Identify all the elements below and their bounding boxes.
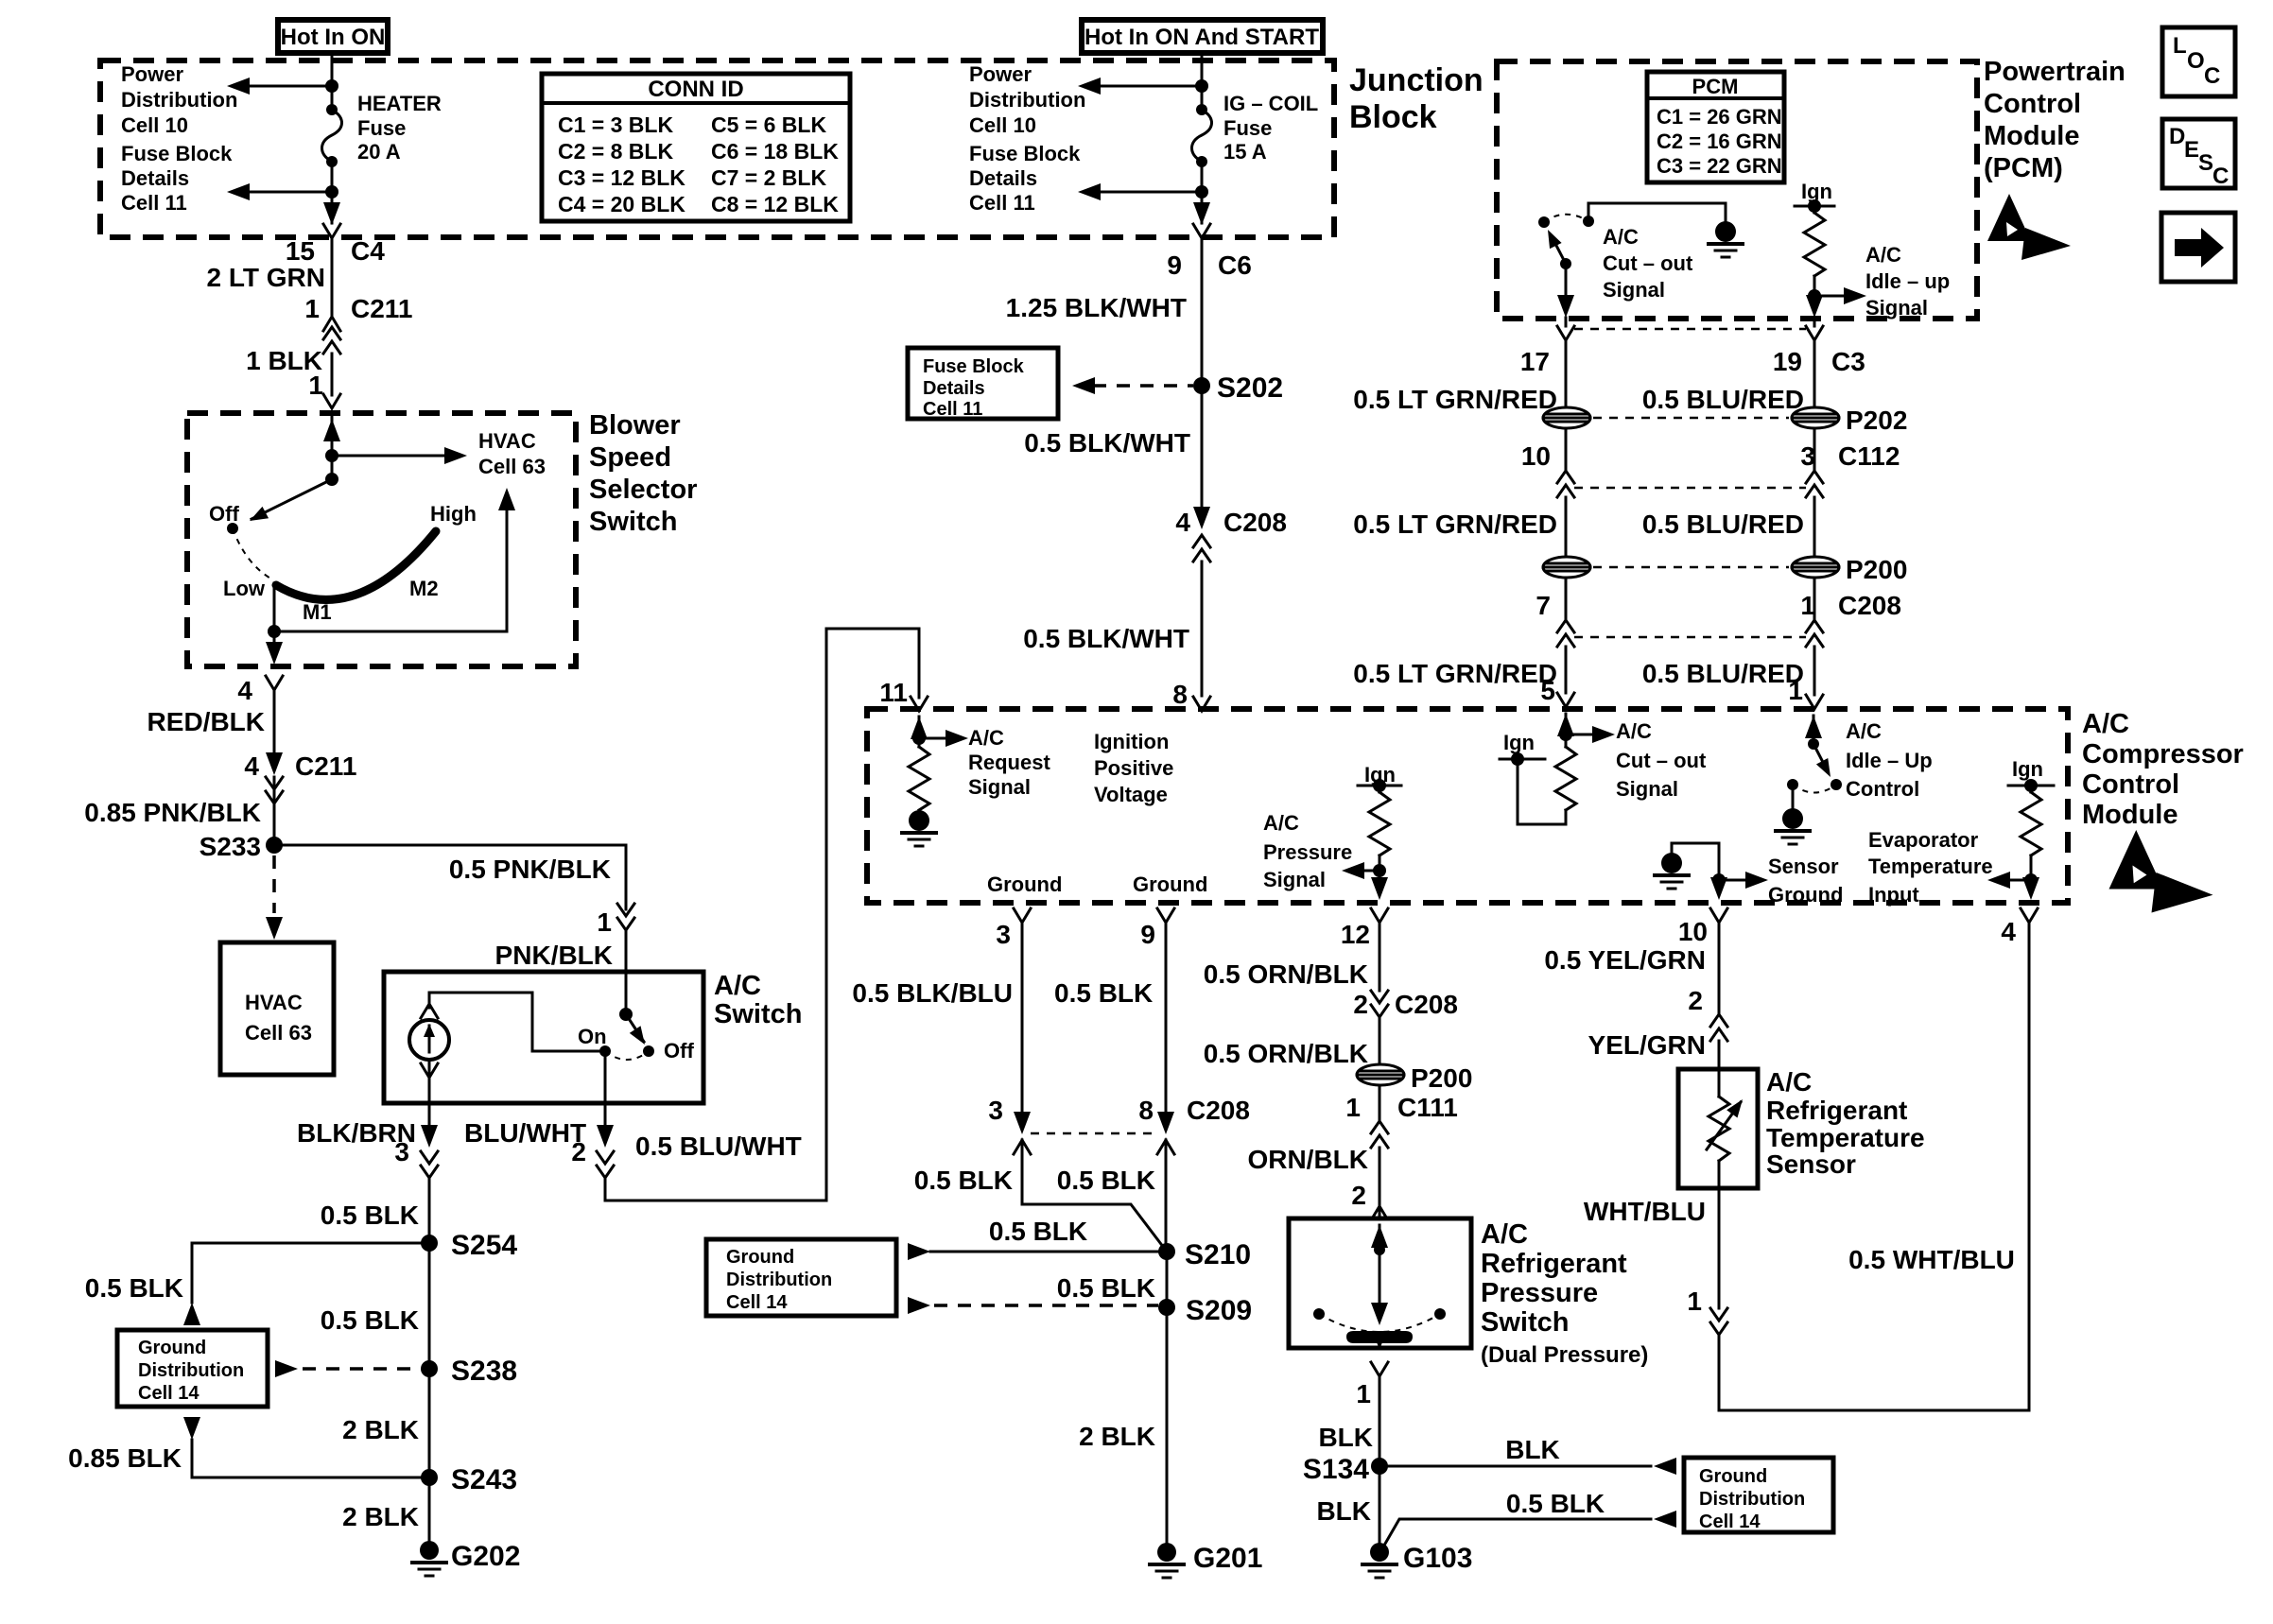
svg-text:HEATER: HEATER: [357, 92, 442, 115]
svg-text:Cell 11: Cell 11: [969, 191, 1035, 215]
svg-text:Ign: Ign: [1801, 180, 1832, 203]
svg-text:C4 = 20 BLK: C4 = 20 BLK: [558, 192, 685, 216]
svg-text:Module: Module: [1984, 121, 2080, 151]
svg-text:0.85 BLK: 0.85 BLK: [68, 1443, 182, 1473]
svg-text:BLU/WHT: BLU/WHT: [464, 1118, 586, 1148]
svg-text:G202: G202: [451, 1541, 520, 1572]
svg-text:C: C: [2212, 164, 2229, 189]
svg-text:Cell 63: Cell 63: [245, 1021, 312, 1045]
svg-text:Switch: Switch: [714, 999, 802, 1029]
svg-text:S209: S209: [1186, 1295, 1252, 1326]
svg-text:Junction: Junction: [1349, 62, 1484, 98]
svg-text:15: 15: [286, 236, 315, 266]
svg-text:1: 1: [304, 294, 320, 323]
svg-text:Switch: Switch: [1481, 1307, 1569, 1338]
svg-text:1: 1: [308, 371, 323, 400]
svg-text:Signal: Signal: [1865, 296, 1928, 320]
svg-text:M1: M1: [303, 600, 332, 624]
svg-text:0.5 BLK: 0.5 BLK: [1057, 1273, 1155, 1303]
svg-text:2 LT GRN: 2 LT GRN: [207, 263, 325, 292]
svg-text:10: 10: [1521, 441, 1551, 471]
svg-text:E: E: [2184, 137, 2199, 163]
svg-text:C1 = 26 GRN: C1 = 26 GRN: [1657, 105, 1782, 129]
svg-text:Cell 11: Cell 11: [923, 399, 982, 420]
svg-text:0.5 YEL/GRN: 0.5 YEL/GRN: [1544, 945, 1706, 975]
svg-text:S210: S210: [1185, 1239, 1251, 1270]
svg-text:Ground: Ground: [1699, 1466, 1767, 1487]
svg-text:L: L: [2173, 33, 2187, 59]
svg-text:IG – COIL: IG – COIL: [1223, 92, 1318, 115]
svg-text:S: S: [2198, 150, 2213, 176]
svg-text:Distribution: Distribution: [121, 88, 237, 112]
svg-text:P200: P200: [1411, 1063, 1472, 1093]
svg-text:Cell 11: Cell 11: [121, 191, 187, 215]
svg-text:Control: Control: [1984, 89, 2081, 119]
svg-text:0.5 BLK: 0.5 BLK: [914, 1166, 1013, 1195]
svg-text:C211: C211: [295, 752, 356, 781]
svg-text:2: 2: [571, 1137, 586, 1166]
svg-text:ORN/BLK: ORN/BLK: [1247, 1145, 1368, 1174]
svg-text:S254: S254: [451, 1230, 517, 1261]
svg-text:C3 = 12 BLK: C3 = 12 BLK: [558, 165, 685, 190]
svg-text:Compressor: Compressor: [2082, 739, 2244, 769]
svg-text:Voltage: Voltage: [1094, 783, 1168, 806]
svg-text:S238: S238: [451, 1356, 517, 1387]
svg-text:Cell 14: Cell 14: [726, 1292, 788, 1313]
svg-text:Ground: Ground: [138, 1338, 206, 1358]
svg-text:0.5 BLK: 0.5 BLK: [85, 1273, 183, 1303]
svg-text:A/C: A/C: [1616, 719, 1652, 743]
svg-text:CONN ID: CONN ID: [648, 77, 743, 102]
svg-text:4: 4: [244, 752, 259, 781]
svg-text:4: 4: [2001, 917, 2016, 946]
svg-text:BLK: BLK: [1316, 1496, 1371, 1526]
svg-text:G103: G103: [1403, 1543, 1472, 1574]
svg-text:0.5 BLK: 0.5 BLK: [1057, 1166, 1155, 1195]
svg-text:Ign: Ign: [1503, 731, 1535, 754]
svg-text:C2 = 16 GRN: C2 = 16 GRN: [1657, 130, 1782, 153]
svg-text:C6: C6: [1218, 251, 1252, 280]
svg-text:Signal: Signal: [1263, 868, 1326, 891]
svg-text:Evaporator: Evaporator: [1868, 828, 1979, 852]
svg-text:Control: Control: [2082, 769, 2179, 800]
svg-text:A/C: A/C: [1846, 719, 1882, 743]
svg-text:Fuse Block: Fuse Block: [923, 356, 1025, 377]
svg-text:2: 2: [1688, 986, 1703, 1015]
svg-text:Ground: Ground: [726, 1247, 794, 1268]
svg-text:High: High: [430, 502, 477, 526]
svg-text:20 A: 20 A: [357, 140, 401, 164]
svg-text:Distribution: Distribution: [969, 88, 1085, 112]
svg-text:0.5 BLU/RED: 0.5 BLU/RED: [1642, 659, 1804, 688]
svg-text:0.5 LT GRN/RED: 0.5 LT GRN/RED: [1353, 510, 1557, 539]
svg-text:C208: C208: [1838, 591, 1901, 620]
svg-text:Refrigerant: Refrigerant: [1481, 1249, 1627, 1279]
svg-text:A/C: A/C: [1603, 225, 1639, 249]
svg-text:(Dual Pressure): (Dual Pressure): [1481, 1342, 1648, 1368]
svg-text:Distribution: Distribution: [1699, 1489, 1805, 1510]
svg-text:1: 1: [1788, 676, 1803, 705]
svg-text:Blower: Blower: [589, 410, 681, 441]
svg-text:Low: Low: [223, 577, 266, 600]
svg-text:A/C: A/C: [1481, 1219, 1528, 1250]
svg-text:Sensor: Sensor: [1766, 1149, 1856, 1179]
svg-text:3: 3: [394, 1137, 409, 1166]
svg-text:D: D: [2169, 124, 2185, 149]
svg-text:4: 4: [1175, 508, 1190, 537]
svg-text:C2 = 8 BLK: C2 = 8 BLK: [558, 139, 673, 164]
svg-text:0.5 LT GRN/RED: 0.5 LT GRN/RED: [1353, 385, 1557, 414]
svg-text:Cell 14: Cell 14: [1699, 1512, 1761, 1532]
svg-text:Pressure: Pressure: [1263, 840, 1352, 864]
svg-text:S202: S202: [1217, 372, 1283, 404]
svg-text:11: 11: [879, 678, 908, 707]
svg-text:1: 1: [1345, 1093, 1361, 1122]
svg-text:Power: Power: [121, 62, 183, 86]
svg-text:C: C: [2204, 63, 2220, 89]
svg-text:Request: Request: [968, 751, 1050, 774]
svg-text:3: 3: [1800, 441, 1815, 471]
svg-text:1: 1: [1356, 1379, 1371, 1408]
svg-text:0.5 BLK: 0.5 BLK: [321, 1201, 419, 1230]
svg-text:M2: M2: [409, 577, 439, 600]
svg-text:0.5 BLK: 0.5 BLK: [1506, 1489, 1605, 1518]
svg-text:C7 = 2 BLK: C7 = 2 BLK: [711, 165, 826, 190]
svg-text:C112: C112: [1838, 441, 1900, 471]
svg-text:0.5 BLU/WHT: 0.5 BLU/WHT: [635, 1132, 802, 1161]
svg-text:C5 = 6 BLK: C5 = 6 BLK: [711, 112, 826, 137]
svg-text:Powertrain: Powertrain: [1984, 57, 2126, 87]
svg-text:9: 9: [1167, 251, 1182, 280]
svg-text:Selector: Selector: [589, 475, 697, 505]
svg-text:Temperature: Temperature: [1766, 1123, 1925, 1152]
svg-text:0.5 BLK: 0.5 BLK: [321, 1305, 419, 1335]
svg-text:Positive: Positive: [1094, 756, 1173, 780]
svg-text:19: 19: [1773, 347, 1802, 376]
svg-text:7: 7: [1536, 591, 1551, 620]
svg-text:C4: C4: [351, 236, 385, 266]
svg-text:1: 1: [597, 907, 612, 937]
svg-text:8: 8: [1138, 1096, 1154, 1125]
svg-text:Details: Details: [923, 378, 985, 399]
svg-text:0.85 PNK/BLK: 0.85 PNK/BLK: [84, 798, 261, 827]
svg-text:0.5 PNK/BLK: 0.5 PNK/BLK: [449, 855, 611, 884]
svg-text:HVAC: HVAC: [245, 991, 303, 1014]
svg-text:1.25 BLK/WHT: 1.25 BLK/WHT: [1006, 293, 1187, 322]
svg-text:Idle – Up: Idle – Up: [1846, 749, 1933, 772]
svg-text:0.5 ORN/BLK: 0.5 ORN/BLK: [1204, 1039, 1368, 1068]
svg-text:Control: Control: [1846, 777, 1919, 801]
svg-text:P202: P202: [1846, 406, 1907, 435]
svg-text:O: O: [2187, 48, 2205, 74]
svg-text:Ign: Ign: [2012, 757, 2043, 781]
svg-text:C111: C111: [1397, 1093, 1458, 1122]
svg-text:Cell 10: Cell 10: [969, 113, 1036, 137]
svg-text:A/C: A/C: [2082, 709, 2129, 739]
svg-text:Fuse Block: Fuse Block: [121, 142, 233, 165]
svg-text:0.5 BLK/BLU: 0.5 BLK/BLU: [852, 978, 1013, 1008]
svg-text:Hot In ON And START: Hot In ON And START: [1084, 25, 1319, 50]
svg-text:C211: C211: [351, 294, 412, 323]
svg-text:C6 = 18 BLK: C6 = 18 BLK: [711, 139, 839, 164]
svg-text:15 A: 15 A: [1223, 140, 1267, 164]
svg-text:Speed: Speed: [589, 442, 671, 473]
svg-text:(PCM): (PCM): [1984, 153, 2063, 183]
svg-text:0.5 BLK: 0.5 BLK: [1054, 978, 1153, 1008]
svg-text:5: 5: [1540, 676, 1555, 705]
svg-text:Fuse: Fuse: [357, 116, 406, 140]
svg-text:0.5 BLK/WHT: 0.5 BLK/WHT: [1024, 428, 1190, 458]
svg-text:A/C: A/C: [968, 726, 1004, 750]
svg-text:3: 3: [988, 1096, 1003, 1125]
svg-text:Block: Block: [1349, 99, 1437, 135]
svg-text:Ground: Ground: [1768, 883, 1843, 907]
svg-text:A/C: A/C: [1865, 243, 1901, 267]
svg-text:Signal: Signal: [968, 775, 1031, 799]
svg-text:1: 1: [1800, 591, 1815, 620]
svg-text:Ground: Ground: [987, 872, 1062, 896]
svg-text:17: 17: [1520, 347, 1550, 376]
svg-text:Input: Input: [1868, 883, 1919, 907]
svg-text:C3 = 22 GRN: C3 = 22 GRN: [1657, 154, 1782, 178]
svg-text:Off: Off: [664, 1039, 694, 1063]
svg-text:C208: C208: [1187, 1096, 1250, 1125]
svg-text:0.5 BLU/RED: 0.5 BLU/RED: [1642, 510, 1804, 539]
svg-text:Fuse Block: Fuse Block: [969, 142, 1081, 165]
svg-text:Switch: Switch: [589, 507, 677, 537]
svg-text:Hot In ON: Hot In ON: [281, 25, 386, 50]
svg-text:C3: C3: [1831, 347, 1865, 376]
svg-text:BLK: BLK: [1318, 1423, 1373, 1452]
svg-text:C8 = 12 BLK: C8 = 12 BLK: [711, 192, 839, 216]
svg-text:1: 1: [1687, 1287, 1702, 1316]
svg-text:Cut – out: Cut – out: [1616, 749, 1707, 772]
svg-text:BLK: BLK: [1505, 1435, 1560, 1464]
svg-text:C208: C208: [1223, 508, 1287, 537]
svg-text:Pressure: Pressure: [1481, 1278, 1598, 1308]
svg-text:A/C: A/C: [1263, 811, 1299, 835]
svg-text:0.5 ORN/BLK: 0.5 ORN/BLK: [1204, 959, 1368, 989]
svg-text:Details: Details: [969, 166, 1037, 190]
svg-text:Sensor: Sensor: [1768, 855, 1839, 878]
svg-text:Temperature: Temperature: [1868, 855, 1993, 878]
svg-text:P200: P200: [1846, 555, 1907, 584]
svg-text:2 BLK: 2 BLK: [342, 1415, 419, 1444]
svg-text:RED/BLK: RED/BLK: [147, 707, 265, 736]
svg-text:HVAC: HVAC: [478, 429, 536, 453]
svg-text:WHT/BLU: WHT/BLU: [1584, 1197, 1706, 1226]
svg-text:2 BLK: 2 BLK: [342, 1502, 419, 1531]
svg-text:Cell 63: Cell 63: [478, 455, 546, 478]
svg-text:8: 8: [1172, 680, 1188, 709]
svg-text:PNK/BLK: PNK/BLK: [495, 941, 613, 970]
svg-text:Ignition: Ignition: [1094, 730, 1169, 753]
svg-text:0.5 WHT/BLU: 0.5 WHT/BLU: [1848, 1245, 2015, 1274]
svg-text:Power: Power: [969, 62, 1032, 86]
svg-text:3: 3: [996, 920, 1011, 949]
svg-text:Cut – out: Cut – out: [1603, 251, 1693, 275]
svg-text:0.5 BLU/RED: 0.5 BLU/RED: [1642, 385, 1804, 414]
svg-text:A/C: A/C: [714, 971, 761, 1001]
svg-text:0.5 BLK: 0.5 BLK: [989, 1217, 1087, 1246]
svg-text:Fuse: Fuse: [1223, 116, 1272, 140]
svg-text:S243: S243: [451, 1464, 517, 1495]
svg-text:Module: Module: [2082, 800, 2178, 830]
svg-text:Refrigerant: Refrigerant: [1766, 1096, 1907, 1125]
svg-text:2 BLK: 2 BLK: [1079, 1422, 1155, 1451]
svg-text:On: On: [578, 1025, 607, 1048]
svg-text:A/C: A/C: [1766, 1067, 1812, 1097]
svg-text:Signal: Signal: [1616, 777, 1678, 801]
svg-text:Cell 14: Cell 14: [138, 1383, 200, 1404]
svg-text:Signal: Signal: [1603, 278, 1665, 302]
svg-text:YEL/GRN: YEL/GRN: [1588, 1030, 1706, 1060]
svg-text:S134: S134: [1303, 1454, 1369, 1485]
svg-text:9: 9: [1140, 920, 1155, 949]
svg-text:PCM: PCM: [1692, 75, 1739, 98]
svg-text:S233: S233: [200, 832, 261, 861]
svg-text:2: 2: [1351, 1181, 1366, 1210]
svg-text:Details: Details: [121, 166, 189, 190]
svg-text:C1 = 3 BLK: C1 = 3 BLK: [558, 112, 673, 137]
svg-text:Cell 10: Cell 10: [121, 113, 188, 137]
svg-text:0.5 BLK/WHT: 0.5 BLK/WHT: [1023, 624, 1189, 653]
svg-text:2: 2: [1353, 990, 1368, 1019]
svg-text:C208: C208: [1395, 990, 1458, 1019]
svg-text:Ground: Ground: [1133, 872, 1207, 896]
svg-text:10: 10: [1678, 917, 1708, 946]
svg-text:4: 4: [237, 676, 252, 705]
svg-text:Distribution: Distribution: [138, 1360, 244, 1381]
svg-text:0.5 LT GRN/RED: 0.5 LT GRN/RED: [1353, 659, 1557, 688]
svg-text:Distribution: Distribution: [726, 1270, 832, 1290]
svg-text:G201: G201: [1193, 1543, 1262, 1574]
svg-text:12: 12: [1341, 920, 1370, 949]
svg-text:Off: Off: [209, 502, 239, 526]
svg-text:Idle – up: Idle – up: [1865, 269, 1950, 293]
